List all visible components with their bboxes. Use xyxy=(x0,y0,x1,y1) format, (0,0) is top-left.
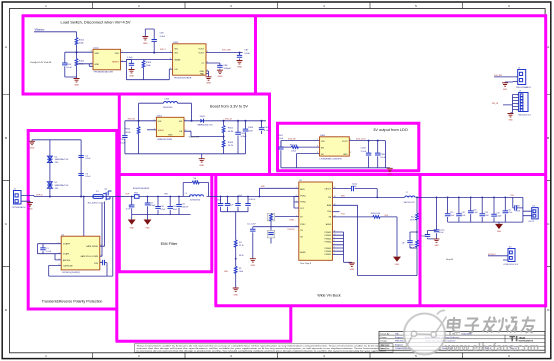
svg-text:R5: R5 xyxy=(239,268,241,270)
wire C80 to VIN rail xyxy=(153,42,155,53)
svg-text:Cfb: Cfb xyxy=(402,243,405,245)
svg-text:GND: GND xyxy=(95,64,100,66)
svg-text:C20: C20 xyxy=(496,213,499,215)
resistor RFBB feedback xyxy=(416,240,419,247)
ground below mid cap xyxy=(129,70,135,73)
svg-text:8: 8 xyxy=(207,51,208,53)
box D left edge xyxy=(27,129,30,310)
svg-text:BIAS: BIAS xyxy=(327,204,332,207)
IC U501 boost xyxy=(156,117,184,136)
svg-text:16: 16 xyxy=(334,204,336,206)
wire PVIN stubs xyxy=(294,197,299,209)
svg-text:L501: L501 xyxy=(165,98,171,100)
capacitor C101 xyxy=(62,63,67,65)
svg-text:Load Switch, Disconnect when V: Load Switch, Disconnect when Vin=4.5V xyxy=(61,20,131,25)
wire DNP link xyxy=(270,221,272,244)
svg-text:Cin5: Cin5 xyxy=(238,195,242,197)
svg-text:GATE PULL DOWN: GATE PULL DOWN xyxy=(80,255,98,258)
wire EMI ground rail xyxy=(132,214,191,216)
ground top left xyxy=(31,140,33,142)
capacitor C20 xyxy=(493,197,495,222)
wire C101 vertical xyxy=(64,52,66,77)
capacitor C1 xyxy=(42,244,44,254)
diode D501 xyxy=(200,119,203,123)
capacitor C502 xyxy=(237,121,239,154)
svg-text:7: 7 xyxy=(296,215,297,217)
svg-text:7: 7 xyxy=(101,255,102,257)
svg-text:J3: J3 xyxy=(518,67,520,69)
svg-text:VOUT: VOUT xyxy=(198,52,205,54)
svg-text:VOUT: VOUT xyxy=(198,49,205,51)
svg-text:Cvmax: Cvmax xyxy=(439,229,445,231)
node junctions out caps xyxy=(447,197,449,199)
watermark circle logo xyxy=(404,314,445,355)
svg-text:Css 2.2nF: Css 2.2nF xyxy=(247,224,256,226)
svg-text:3V3_LDO: 3V3_LDO xyxy=(356,139,366,141)
inductor L7 xyxy=(405,196,416,197)
svg-text:2.2uF: 2.2uF xyxy=(278,138,284,140)
svg-text:C9: C9 xyxy=(128,206,130,208)
wire VOUT rail xyxy=(206,52,243,54)
wire feedback mid xyxy=(416,220,418,240)
svg-text:PVIN2: PVIN2 xyxy=(300,202,305,204)
wire R102 to bottom xyxy=(76,66,78,77)
inductor L1 xyxy=(190,195,204,197)
svg-text:1: 1 xyxy=(170,51,171,53)
svg-text:EN: EN xyxy=(321,148,324,150)
box C top xyxy=(276,122,420,125)
svg-text:4: 4 xyxy=(122,60,123,62)
svg-text:OSTVN02A150: OSTVN02A150 xyxy=(12,206,27,209)
svg-text:GATE DRIVE: GATE DRIVE xyxy=(86,245,99,248)
box E bottom xyxy=(118,270,213,273)
svg-text:PREC002SAAN-RC: PREC002SAAN-RC xyxy=(516,86,532,89)
svg-text:10uF: 10uF xyxy=(248,130,254,132)
IC U1 smart diode xyxy=(61,236,100,270)
svg-text:U102: U102 xyxy=(173,42,179,44)
node junctions EMI xyxy=(131,196,133,198)
capacitor Cin3 xyxy=(220,197,222,212)
svg-text:8: 8 xyxy=(101,245,102,247)
svg-text:4: 4 xyxy=(517,104,518,106)
svg-text:49.9k: 49.9k xyxy=(410,220,415,222)
svg-text:PAD: PAD xyxy=(200,73,205,76)
wire fuse to box E xyxy=(103,196,119,198)
svg-text:GND: GND xyxy=(206,83,211,85)
svg-text:VIN: VIN xyxy=(261,186,265,188)
resistor R502 xyxy=(223,121,225,126)
svg-text:GND: GND xyxy=(199,165,204,167)
wire RFBB bottom xyxy=(416,247,418,255)
wire BIAS loop xyxy=(333,205,418,275)
svg-text:PGd: PGd xyxy=(327,211,331,213)
wire ANODE link xyxy=(55,254,61,260)
resistor R103 pullup xyxy=(143,60,145,70)
svg-text:SMBJ28A-T3-F: SMBJ28A-T3-F xyxy=(55,158,70,161)
svg-text:GND: GND xyxy=(237,66,242,68)
svg-text:Drawn:: Drawn: xyxy=(381,337,388,339)
svg-text:16.2k: 16.2k xyxy=(228,145,234,147)
zone letters right xyxy=(547,45,550,312)
connector J10 xyxy=(508,249,515,262)
svg-text:PGND3: PGND3 xyxy=(325,238,332,240)
capacitor bypass 3.3uF mid xyxy=(126,60,131,70)
node junctions input xyxy=(220,196,222,198)
wire buck input bus xyxy=(221,196,299,198)
svg-text:3V3_IN: 3V3_IN xyxy=(128,119,136,121)
svg-text:4: 4 xyxy=(170,58,171,60)
svg-text:1: 1 xyxy=(296,187,297,189)
svg-text:AGND: AGND xyxy=(326,223,332,226)
capacitor C18 xyxy=(470,197,472,222)
resistor R301 xyxy=(291,146,298,149)
wire cap column xyxy=(80,140,82,197)
svg-text:NC: NC xyxy=(321,154,325,156)
capacitor C504 xyxy=(261,121,263,134)
wire junction to C101 branch xyxy=(65,51,93,53)
svg-text:L1: L1 xyxy=(185,193,187,195)
svg-text:R103: R103 xyxy=(146,62,152,64)
zone digits top xyxy=(45,4,510,8)
svg-text:PGND1: PGND1 xyxy=(325,232,332,234)
svg-text:Vin(H)=5.14V Vl=4.08: Vin(H)=5.14V Vl=4.08 xyxy=(30,62,52,64)
wire NC row xyxy=(296,154,319,168)
capacitor C202 series xyxy=(513,197,523,208)
wire out gnd rail xyxy=(448,197,523,222)
wire CBOOT branch xyxy=(333,189,378,198)
svg-text:VBIAS: VBIAS xyxy=(174,58,181,61)
svg-text:D501: D501 xyxy=(200,116,206,118)
power earth C9 xyxy=(128,220,136,225)
svg-text:GND: GND xyxy=(145,227,150,229)
capacitor C2 xyxy=(78,156,83,158)
svg-text:GND: GND xyxy=(233,294,238,296)
svg-text:4.7uF: 4.7uF xyxy=(160,209,166,211)
svg-text:XAL7070-472: XAL7070-472 xyxy=(404,201,415,204)
svg-text:0.1uF: 0.1uF xyxy=(264,130,270,132)
node junction FB xyxy=(223,136,225,138)
svg-text:GND: GND xyxy=(130,227,135,229)
wire J3 pin1 xyxy=(494,76,518,78)
svg-text:100k: 100k xyxy=(239,271,243,273)
node junction VOUT xyxy=(239,52,241,54)
svg-text:7: 7 xyxy=(334,243,335,245)
connector J15 xyxy=(532,208,539,219)
box A bottom / box B top rail xyxy=(22,93,271,96)
svg-text:SHDN: SHDN xyxy=(158,130,164,132)
svg-text:4.7uF: 4.7uF xyxy=(126,208,132,210)
node junction B1 xyxy=(138,120,140,122)
svg-text:its licensors do not warrant t: its licensors do not warrant that the de… xyxy=(137,350,388,353)
power earth out xyxy=(495,224,503,229)
svg-text:GND: GND xyxy=(200,71,205,73)
svg-text:MBR0520LT1G: MBR0520LT1G xyxy=(198,125,213,127)
svg-text:R503: R503 xyxy=(228,142,234,144)
svg-text:SYNC: SYNC xyxy=(300,224,306,226)
svg-text:C303: C303 xyxy=(380,154,386,156)
svg-text:49.9k: 49.9k xyxy=(125,132,131,134)
svg-text:C11: C11 xyxy=(173,206,176,208)
svg-text:Wide Vin Buck: Wide Vin Buck xyxy=(317,294,341,298)
svg-text:5: 5 xyxy=(122,51,123,53)
box F left edge xyxy=(214,173,217,306)
svg-text:C19: C19 xyxy=(485,212,488,214)
svg-text:EMI Filter: EMI Filter xyxy=(161,241,178,246)
svg-text:A: A xyxy=(5,45,7,49)
sheet right magenta edge xyxy=(544,15,547,308)
zone tick marks left xyxy=(3,95,10,267)
svg-text:5: 5 xyxy=(350,139,351,141)
svg-text:Test Chip 3: Test Chip 3 xyxy=(300,262,312,265)
svg-text:10: 10 xyxy=(334,234,336,236)
svg-text:VCAPH: VCAPH xyxy=(63,243,70,246)
svg-text:GND: GND xyxy=(217,76,222,78)
capacitor C302 xyxy=(368,141,370,168)
box F right edge xyxy=(419,173,422,306)
wire junction to U101 pins xyxy=(77,64,94,67)
DNP box R3 xyxy=(267,213,275,221)
svg-text:Boost from 3.3V to 5V: Boost from 3.3V to 5V xyxy=(210,104,248,109)
wire SHDN stub xyxy=(147,129,156,131)
wire VBattery drop xyxy=(76,32,78,38)
zone digits bottom xyxy=(45,354,510,358)
svg-text:0.1uF: 0.1uF xyxy=(85,176,91,178)
svg-text:1: 1 xyxy=(59,242,60,244)
wire CT branch xyxy=(206,63,220,70)
svg-text:PGOOD: PGOOD xyxy=(287,229,295,231)
svg-text:TEXAS: TEXAS xyxy=(519,336,526,339)
svg-text:R102: R102 xyxy=(79,61,85,63)
svg-text:1: 1 xyxy=(516,77,517,79)
svg-text:Engineer: Engineer xyxy=(395,344,403,346)
wire divider gnd xyxy=(235,273,237,288)
svg-text:B: B xyxy=(5,136,7,140)
svg-text:J4: J4 xyxy=(519,90,521,92)
ground Cvmax xyxy=(434,239,440,242)
svg-text:SNS: SNS xyxy=(95,53,100,55)
wire EMI outlet xyxy=(183,196,220,198)
svg-text:5V0 TP: 5V0 TP xyxy=(528,221,534,223)
capacitor Cboot xyxy=(352,186,354,191)
box C right edge xyxy=(417,122,420,171)
wire gnd stem out xyxy=(498,222,500,224)
svg-text:C21: C21 xyxy=(508,209,511,211)
svg-text:470pF: 470pF xyxy=(150,205,156,207)
wire FB branch xyxy=(333,217,398,257)
wire VBattery horizontal xyxy=(34,31,77,33)
capacitor C100p sense xyxy=(428,231,437,239)
svg-text:Vout=5V: Vout=5V xyxy=(446,258,454,261)
wire Cvmax branch xyxy=(436,197,438,239)
wire J1 pin1 to rail xyxy=(21,195,34,196)
svg-text:10uF: 10uF xyxy=(120,142,126,144)
svg-text:VIN: VIN xyxy=(158,121,162,123)
svg-text:B: B xyxy=(547,136,549,140)
svg-text:TSW-106-07-G-S: TSW-106-07-G-S xyxy=(518,114,532,116)
wire U102 GND pins xyxy=(206,71,209,77)
capacitor Cin5 xyxy=(237,197,239,212)
svg-text:1: 1 xyxy=(517,95,518,97)
svg-text:0.1uF: 0.1uF xyxy=(66,67,72,69)
box A right edge xyxy=(254,15,257,94)
svg-text:0.1uF: 0.1uF xyxy=(85,158,91,160)
svg-text:12: 12 xyxy=(334,216,336,218)
svg-text:GND: GND xyxy=(434,245,439,247)
svg-text:2: 2 xyxy=(59,252,60,254)
svg-text:File:: File: xyxy=(381,348,385,350)
svg-text:22.1k: 22.1k xyxy=(239,245,244,247)
capacitor C88 xyxy=(217,65,222,67)
svg-text:GND: GND xyxy=(508,120,513,122)
capacitor Cfb xyxy=(410,232,417,248)
box B right edge xyxy=(268,93,271,175)
wire AVIN branch xyxy=(259,188,298,196)
svg-text:C501: C501 xyxy=(120,139,126,141)
svg-text:C16: C16 xyxy=(461,212,464,214)
svg-text:4: 4 xyxy=(317,152,318,154)
svg-text:2: 2 xyxy=(296,195,297,197)
svg-text:C101: C101 xyxy=(66,64,72,66)
svg-text:3: 3 xyxy=(59,259,60,261)
pin number digits U301 xyxy=(317,139,351,154)
svg-text:AGND: AGND xyxy=(300,251,306,254)
svg-text:3.3uF: 3.3uF xyxy=(244,53,250,55)
svg-text:2: 2 xyxy=(91,62,92,64)
svg-text:C10: C10 xyxy=(160,206,163,208)
wire VBIAS rail xyxy=(126,59,172,61)
watermark char dian xyxy=(447,317,462,332)
wire SW rail xyxy=(333,196,405,198)
IC U2 buck controller xyxy=(299,182,333,260)
svg-text:GND: GND xyxy=(129,75,134,77)
svg-text:3: 3 xyxy=(185,130,186,132)
svg-text:1.0uF: 1.0uF xyxy=(46,251,52,253)
capacitor C16 xyxy=(458,197,460,222)
wire bottom rail to GND xyxy=(65,77,77,79)
node junctions protection xyxy=(49,196,51,198)
svg-text:0.1uF: 0.1uF xyxy=(380,157,386,159)
svg-text:GND: GND xyxy=(74,85,79,87)
svg-text:PGND4: PGND4 xyxy=(325,242,332,244)
wire gnd stems xyxy=(132,215,148,220)
svg-text:HTSW-102-07-G-S: HTSW-102-07-G-S xyxy=(504,264,519,266)
DNP box C30 xyxy=(267,230,275,238)
svg-text:3: 3 xyxy=(91,51,92,53)
wire divider mid xyxy=(235,247,237,266)
svg-text:TID #:: TID #: xyxy=(452,333,458,335)
svg-text:CBOOT: CBOOT xyxy=(324,188,332,190)
svg-text:U301: U301 xyxy=(320,135,326,137)
svg-text:TBD: TBD xyxy=(395,333,400,335)
wire J10 link xyxy=(488,256,508,260)
svg-text:PG1: PG1 xyxy=(341,214,345,216)
capacitor C11 xyxy=(169,197,171,215)
capacitor VSS xyxy=(100,263,107,277)
capacitor C10 xyxy=(157,197,159,215)
svg-text:www.elecfans.com: www.elecfans.com xyxy=(444,342,539,354)
resistor R101 xyxy=(75,38,78,45)
wire SW to diode xyxy=(184,120,200,122)
pin number digits U101 xyxy=(91,51,123,65)
node junctions LDO out xyxy=(368,140,370,142)
svg-text:GND: GND xyxy=(503,89,508,91)
svg-text:GND: GND xyxy=(350,269,355,271)
svg-text:R8: R8 xyxy=(194,178,196,180)
svg-text:100pF: 100pF xyxy=(240,136,247,138)
svg-text:A: A xyxy=(547,45,549,49)
svg-text:49.9k: 49.9k xyxy=(228,131,234,133)
svg-text:2: 2 xyxy=(516,81,517,83)
ground ladder xyxy=(349,263,355,266)
zone tick marks bottom xyxy=(93,353,463,358)
svg-text:4: 4 xyxy=(334,253,335,255)
wire L501 to SW xyxy=(178,103,192,121)
wire TVS column xyxy=(49,140,51,197)
ground below C101 xyxy=(74,79,80,82)
svg-text:ON: ON xyxy=(174,69,178,71)
power earth FB xyxy=(393,257,401,262)
wire FB link xyxy=(184,131,224,140)
svg-text:5: 5 xyxy=(334,250,335,252)
resistor R102 xyxy=(75,59,78,66)
svg-text:GND: GND xyxy=(143,43,148,45)
pin number digits U1 xyxy=(59,242,102,266)
box A left edge xyxy=(22,15,25,95)
svg-text:3V3_IN: 3V3_IN xyxy=(288,139,296,141)
svg-text:U101: U101 xyxy=(93,48,99,50)
svg-text:U501: U501 xyxy=(157,116,163,118)
capacitor Cin4 xyxy=(227,197,229,212)
capacitor C13 xyxy=(147,197,149,215)
svg-text:VIN: VIN xyxy=(174,49,178,51)
inductor L1 frame xyxy=(183,183,208,197)
wire input gnd rail xyxy=(221,212,248,240)
svg-text:PGND2: PGND2 xyxy=(325,235,332,237)
svg-text:3V output from LDO: 3V output from LDO xyxy=(373,127,408,132)
wire R101 to junction xyxy=(76,45,78,59)
svg-text:8: 8 xyxy=(334,240,335,242)
pin number digits U102 xyxy=(170,51,208,71)
svg-text:6: 6 xyxy=(517,110,518,112)
svg-text:VOUT: VOUT xyxy=(342,141,349,143)
capacitor C503 xyxy=(245,121,247,154)
svg-text:C15: C15 xyxy=(450,212,453,214)
svg-text:VIN: VIN xyxy=(164,193,168,195)
box E right edge xyxy=(210,173,213,272)
svg-text:5: 5 xyxy=(154,119,155,121)
svg-text:Drawn By:: Drawn By: xyxy=(381,333,391,335)
svg-text:warrant that this design will: warrant that this design will meet the s… xyxy=(137,347,390,350)
wire riser to L501 xyxy=(139,103,164,121)
box F bottom rail xyxy=(215,304,548,307)
wire 5V0_B output rail xyxy=(204,120,267,122)
wire LDO bottom rail xyxy=(281,167,390,170)
svg-text:VSS: VSS xyxy=(94,263,99,265)
svg-text:6: 6 xyxy=(207,62,208,64)
wire U101 VDD to U102 VIN xyxy=(121,52,173,54)
ground Css xyxy=(250,259,256,262)
svg-text:GND: GND xyxy=(343,154,348,156)
IC U102 load switch xyxy=(173,44,206,75)
svg-text:5V0: 5V0 xyxy=(510,195,513,197)
svg-text:C503: C503 xyxy=(248,127,254,129)
svg-text:SW5: SW5 xyxy=(341,195,345,197)
svg-text:J10: J10 xyxy=(509,246,512,248)
svg-text:3.3uF: 3.3uF xyxy=(160,36,166,38)
wire bottom rail xyxy=(125,153,246,155)
box B left / box E left edge xyxy=(118,93,121,272)
svg-text:74402500: 74402500 xyxy=(163,107,174,109)
